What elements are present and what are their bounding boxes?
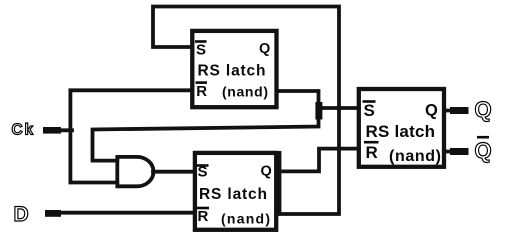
svg-text:RS latch: RS latch	[366, 122, 436, 141]
pin Sbar U1	[195, 40, 207, 43]
terminal D input	[45, 210, 61, 217]
svg-text:S: S	[196, 41, 206, 58]
svg-text:Q: Q	[475, 97, 492, 122]
node Ck junction vertical	[70, 90, 192, 182]
wire feedback: bottom latch upper-right corner to top latch S input	[153, 7, 339, 215]
svg-text:RS latch: RS latch	[198, 62, 266, 79]
wire right latch Q output stub	[444, 109, 451, 113]
wire right latch Qbar output stub	[444, 150, 451, 154]
latch U3 (right/output RS latch)	[359, 89, 444, 167]
svg-text:Q: Q	[425, 102, 438, 120]
svg-text:S: S	[198, 163, 208, 180]
svg-text:S: S	[364, 101, 375, 120]
wire AND gate output to bottom latch S input	[153, 170, 195, 174]
pin Rbar U3	[364, 141, 379, 144]
pin Sbar U3	[363, 100, 376, 103]
terminal Qbar output	[450, 148, 469, 155]
pin Rbar U1	[196, 81, 208, 84]
label Qbar output	[477, 136, 489, 139]
svg-text:Q: Q	[261, 164, 272, 180]
svg-text:R: R	[198, 208, 209, 225]
wire Ck terminal to junction	[59, 128, 72, 132]
svg-text:(nand): (nand)	[222, 84, 268, 100]
wire D terminal to bottom latch R input	[59, 211, 195, 215]
and-gate G1	[117, 157, 153, 186]
svg-text:Q: Q	[259, 41, 270, 57]
svg-text:R: R	[196, 83, 207, 100]
svg-text:(nand): (nand)	[389, 148, 441, 165]
svg-text:R: R	[366, 143, 378, 162]
terminal Q output	[450, 107, 469, 114]
pin Rbar U2	[197, 207, 210, 210]
wire bottom latch Q to right latch R input	[276, 149, 359, 172]
svg-text:RS latch: RS latch	[199, 186, 267, 203]
svg-text:D: D	[14, 203, 29, 226]
node junction blob	[315, 102, 322, 120]
svg-text:Q: Q	[475, 138, 492, 163]
svg-text:C: C	[12, 122, 23, 139]
pin Sbar U2	[197, 164, 209, 167]
svg-text:(nand): (nand)	[221, 211, 270, 227]
latch U1 (top RS latch)	[192, 31, 276, 107]
wire junction to right latch S input	[319, 106, 359, 110]
terminal Ck input	[43, 127, 61, 134]
svg-text:k: k	[25, 122, 34, 139]
wire top latch output to AND gate upper input	[93, 91, 319, 161]
latch U2 (bottom RS latch)	[195, 153, 276, 230]
